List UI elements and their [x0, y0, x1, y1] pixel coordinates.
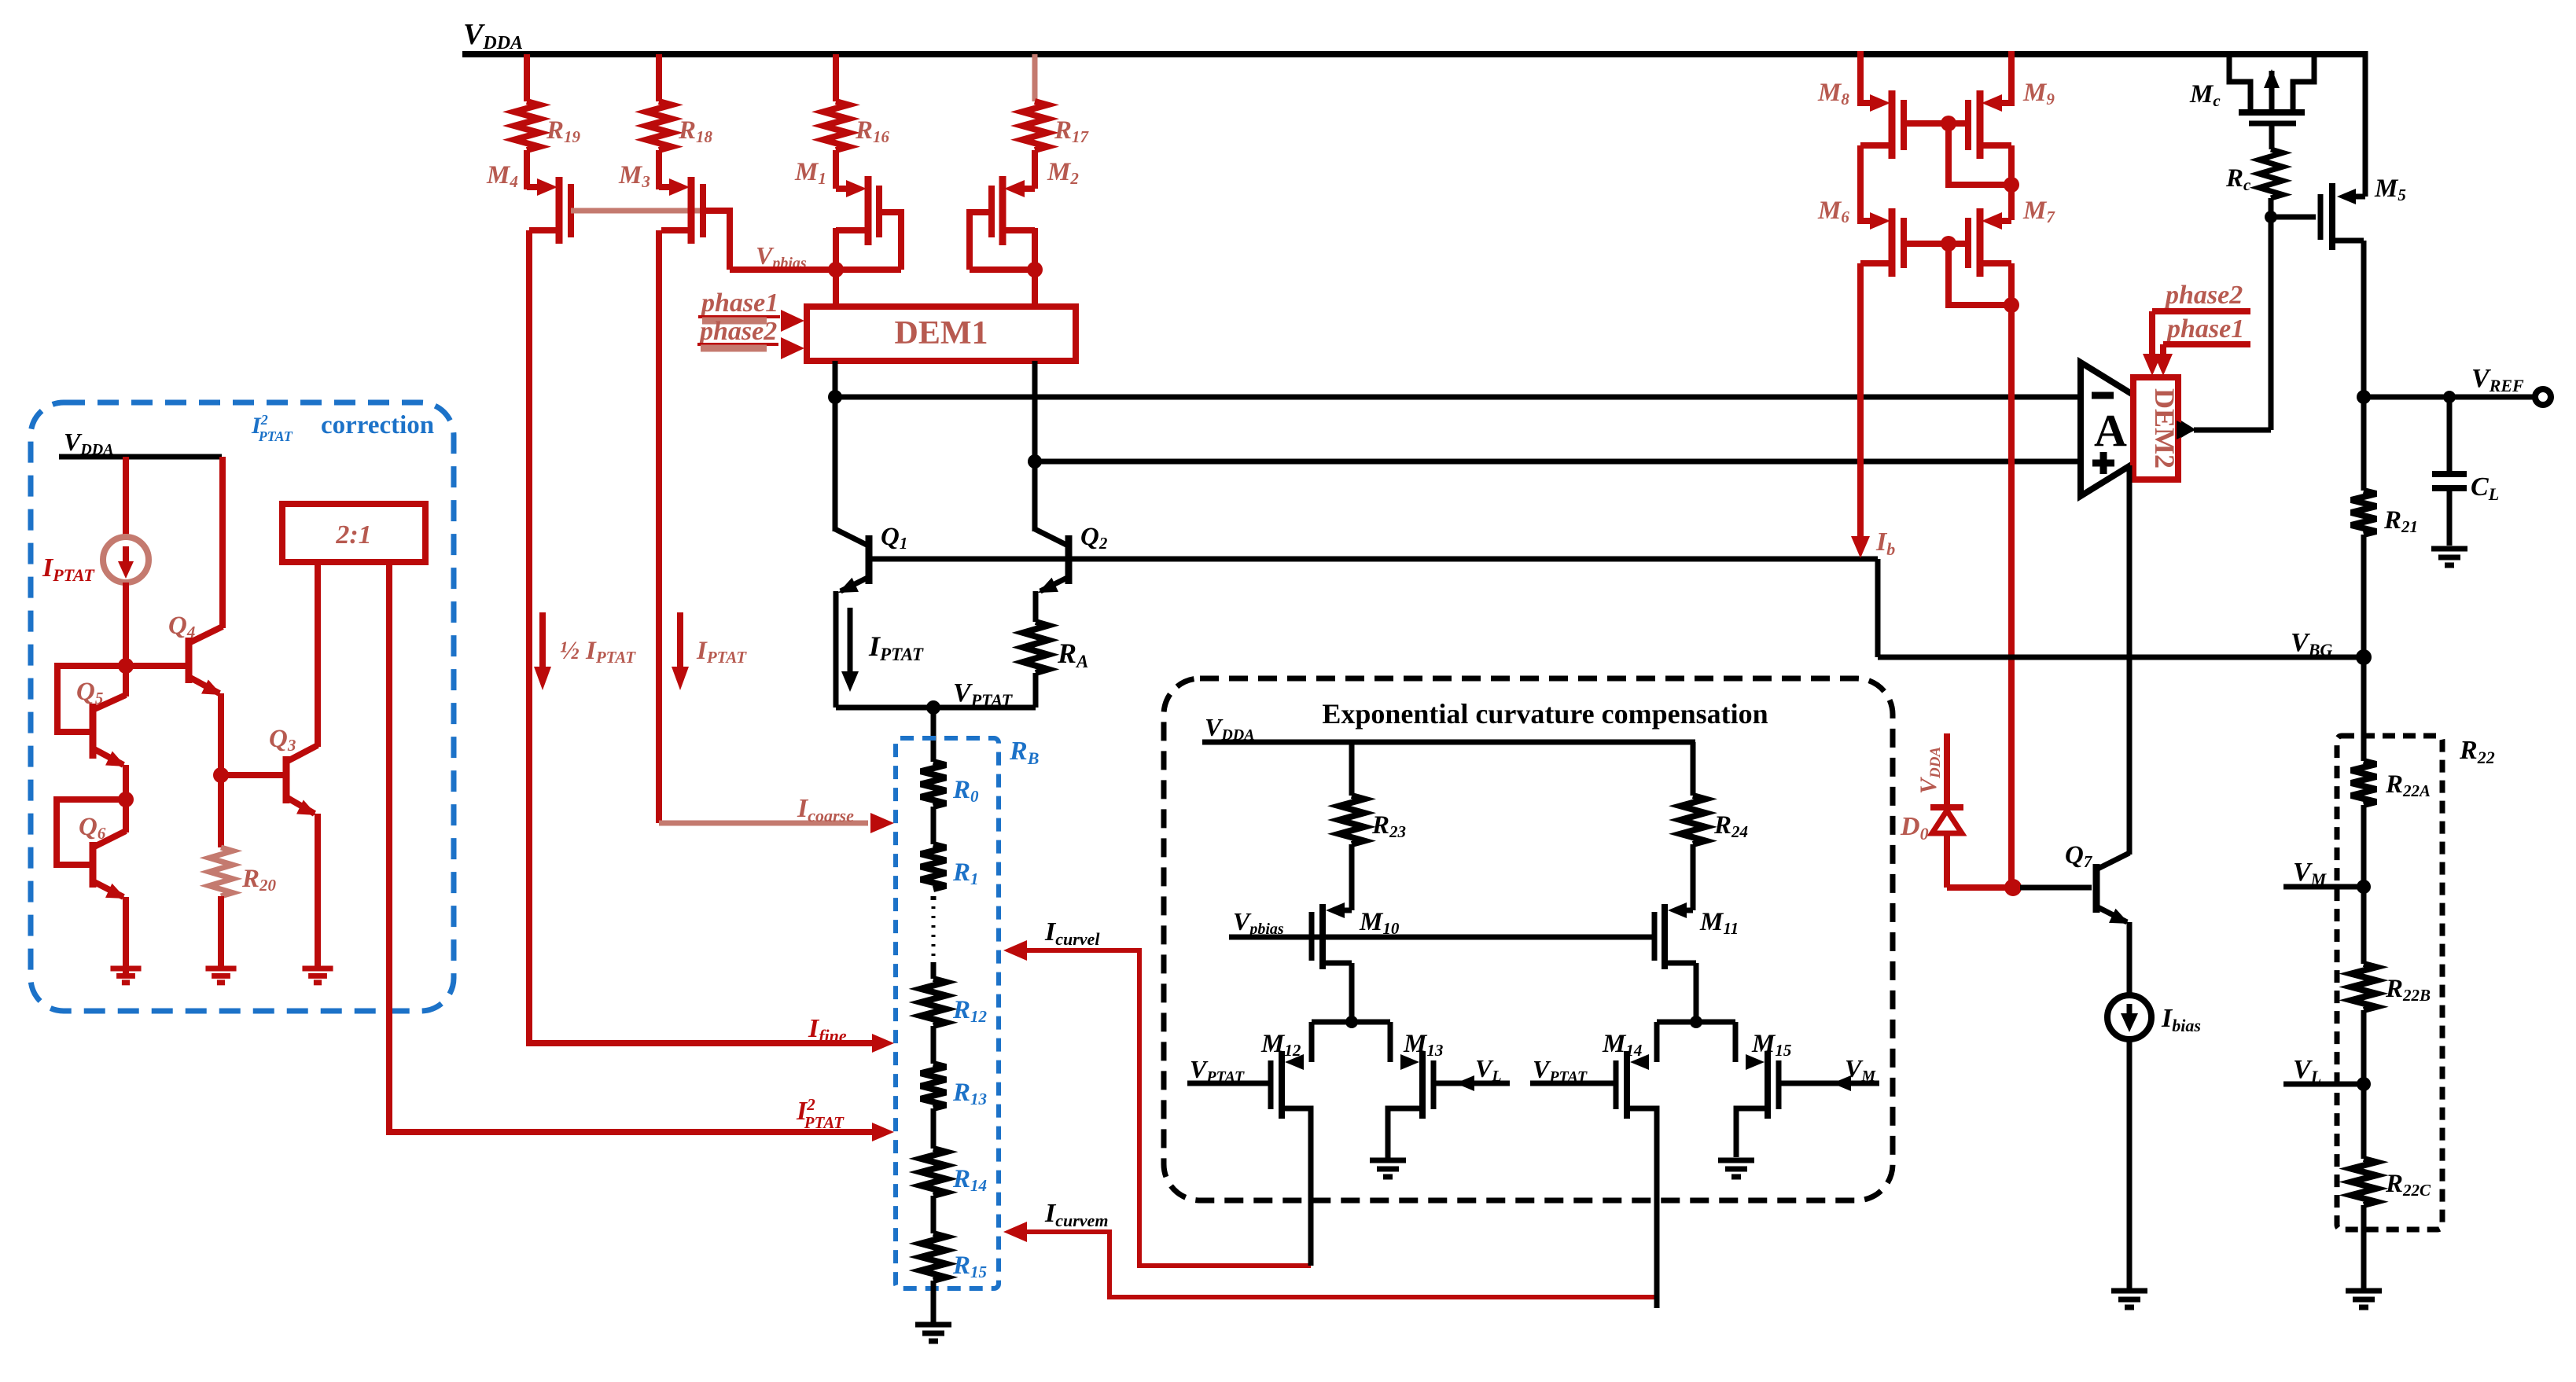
node VPTAT [836, 678, 1036, 715]
junction Rc / M5 gate [2265, 211, 2277, 223]
signal Ifine label [808, 1014, 847, 1046]
ground R22 [2346, 1291, 2382, 1307]
resistor RA [1023, 622, 1088, 708]
wire M2 drain to DEM1 [1032, 270, 1038, 308]
junction M2 drain [1027, 262, 1043, 278]
svg-text:phase2: phase2 [2163, 281, 2243, 310]
wire M2 gate-drain link [970, 266, 1035, 273]
block RB dashed box [896, 737, 1039, 1288]
svg-text:phase2: phase2 [697, 317, 777, 346]
node VDDA label (comp box) [1205, 713, 1255, 744]
resistor R21 [2351, 397, 2418, 657]
resistor R13 [921, 1064, 987, 1108]
resistor R15 [921, 1233, 987, 1281]
block exponential curvature compensation dashed box [1164, 678, 1893, 1200]
wire VPTAT to RB [931, 708, 937, 762]
wire to op-amp inverting input [835, 395, 2081, 400]
junction Q5 emitter / Q6 [118, 792, 134, 807]
svg-text:DEM2: DEM2 [2149, 388, 2180, 469]
resistor R24 [1680, 796, 1748, 910]
junction VBG [2356, 649, 2372, 665]
current arrow IPTAT [841, 608, 924, 692]
ground R20 [205, 969, 236, 983]
wire M6 drain Ib [1851, 263, 1870, 558]
resistor R20 [209, 775, 277, 966]
transistor M7 [1968, 197, 2055, 277]
transistor M15 [1735, 1022, 1879, 1157]
wire M3 gate to Vpbias [703, 211, 730, 270]
resistor R22C [2351, 1084, 2431, 1289]
terminal VREF [2471, 364, 2551, 405]
wire [931, 807, 937, 844]
block 2:1 current divider [282, 504, 425, 562]
transistor M1 [794, 158, 901, 270]
wire Vpbias [730, 266, 901, 273]
wire to ground [931, 1281, 937, 1325]
transistor M2 [970, 158, 1079, 270]
transistor Q1 [835, 523, 907, 708]
transistor Q6 [57, 799, 126, 975]
transistor M5 [2271, 175, 2406, 397]
wire VDDA rail (correction box) [59, 454, 222, 460]
transistor M4 [486, 161, 571, 244]
wire M1 drain to DEM1 [833, 270, 839, 308]
wire VBG [1878, 628, 2364, 660]
svg-text:2:1: 2:1 [335, 520, 371, 549]
transistor M6 [1817, 145, 1904, 277]
transistor Mc [2189, 54, 2314, 149]
junction op-amp plus line [1028, 454, 1042, 469]
junction Q4 emitter / Q3 base / R20 [213, 767, 229, 783]
signal phase2 into DEM2 [2143, 281, 2250, 376]
resistor R12 [921, 979, 988, 1026]
transistor M9 [1968, 51, 2055, 159]
ground Ibias [2111, 1291, 2147, 1307]
resistor R16 [823, 54, 890, 189]
transistor Q3 [228, 562, 318, 966]
svg-text:phase1: phase1 [699, 289, 778, 318]
ground Q6 [110, 969, 141, 983]
signal phase2 into DEM1 [697, 317, 804, 359]
node VDDA label [463, 18, 523, 53]
transistor M8 [1817, 51, 1904, 159]
svg-text:A: A [2094, 405, 2127, 456]
node VM [2283, 858, 2371, 894]
junction VREF / M5 drain [2357, 390, 2371, 404]
svg-text:DEM1: DEM1 [895, 315, 988, 351]
diode D0 [1900, 733, 2007, 888]
resistor R19 [514, 54, 581, 189]
ground M13 [1370, 1160, 1406, 1177]
transistor Q7 [2020, 465, 2129, 996]
signal Icoarse label [797, 794, 854, 825]
wire DEM2 output [2177, 217, 2271, 439]
wire M3 drain Icoarse route [659, 230, 894, 833]
junction node A [118, 658, 134, 674]
junction op-amp minus line [828, 390, 842, 404]
wire Icurvem [1003, 1222, 1657, 1297]
junction Q7 base [2004, 879, 2022, 896]
signal Icurvel label [1044, 917, 1100, 949]
current arrow IPTAT (M3) [672, 612, 747, 690]
signal phase1 into DEM1 [698, 289, 804, 332]
signal phase1 into DEM2 [2154, 314, 2250, 376]
junction CL tap [2443, 391, 2456, 403]
wire DEM1 to Q2 collector [1032, 361, 1038, 531]
resistor R1 [921, 844, 979, 889]
wire M6 M7 gate link [1904, 236, 2007, 305]
current arrow half IPTAT [534, 612, 636, 690]
ground CL [2431, 549, 2467, 565]
wire Q1 Q2 base to VBG [1875, 559, 1881, 657]
wire DEM1 to Q1 collector [833, 361, 838, 531]
wire VDDA rail (comp box) [1202, 742, 1695, 796]
wire M4-M3 gate link [571, 208, 703, 214]
signal Icurvem label [1044, 1199, 1108, 1230]
op-amp A [2081, 362, 2189, 496]
wire Icurvel [1003, 940, 1311, 1266]
svg-text:phase1: phase1 [2165, 314, 2244, 344]
resistor R14 [921, 1149, 987, 1196]
ground Q3 [302, 969, 333, 983]
current source IPTAT [42, 457, 149, 660]
wire dotted continuation [931, 896, 937, 979]
transistor M10 [1312, 902, 1400, 1019]
node Vpbias label [756, 241, 807, 272]
current source Ibias [2107, 995, 2201, 1039]
resistor R17 [1022, 54, 1090, 189]
junction M12 M13 drains [1312, 1016, 1390, 1028]
junction M1 drain / Vpbias [828, 262, 844, 278]
wire M9 drain [2004, 145, 2019, 220]
resistor R22B [2351, 887, 2431, 1084]
signal Ib label [1875, 527, 1895, 559]
node VDDA label (correction box) [64, 428, 114, 458]
resistor R23 [1339, 742, 1406, 910]
wire Q1 Q2 bases [869, 557, 1878, 562]
block DEM2 [2133, 377, 2180, 480]
capacitor CL [2432, 397, 2499, 546]
wire M7 drain to Q7 base [2004, 263, 2019, 884]
ground RB [915, 1325, 951, 1341]
transistor M12 [1187, 1022, 1312, 1266]
node Vpbias label (comp box) [1233, 907, 1284, 938]
wire node A to Q4 base [126, 663, 186, 669]
wire M8 M9 gate link [1904, 116, 2007, 185]
ground M15 [1718, 1160, 1754, 1177]
wire VREF [2364, 395, 2535, 400]
wire M4 drain Ifine route [529, 230, 894, 1053]
wire [931, 1026, 937, 1064]
block R22 dashed box [2337, 736, 2495, 1229]
resistor R22A [2351, 657, 2431, 887]
junction M14 M15 drains [1657, 1016, 1735, 1028]
wire 2:1 to I2PTAT output [389, 562, 894, 1141]
node VL [2283, 1055, 2371, 1091]
resistor R0 [921, 762, 979, 807]
svg-text:correction: correction [321, 411, 434, 439]
wire VDDA top rail [462, 51, 2365, 197]
svg-text:Exponential curvature compensa: Exponential curvature compensation [1322, 698, 1768, 730]
resistor Rc [2225, 149, 2283, 217]
block I2PTAT correction dashed box [31, 402, 454, 1011]
transistor Q2 [1035, 523, 1108, 622]
transistor Q5 [57, 666, 126, 796]
resistor R18 [646, 54, 713, 189]
transistor Q4 [168, 457, 223, 770]
transistor M3 [618, 161, 703, 244]
wire Vpbias gate line [1229, 935, 1654, 940]
wire [931, 1108, 937, 1149]
wire Ibias to ground [2127, 1039, 2133, 1289]
wire to op-amp non-inverting input [1035, 459, 2081, 465]
signal I2PTAT label [796, 1095, 845, 1132]
transistor M11 [1654, 902, 1739, 1019]
transistor M13 [1388, 1022, 1510, 1158]
block DEM1 [807, 307, 1076, 361]
wire [931, 1196, 937, 1233]
transistor M14 [1530, 1022, 1657, 1308]
